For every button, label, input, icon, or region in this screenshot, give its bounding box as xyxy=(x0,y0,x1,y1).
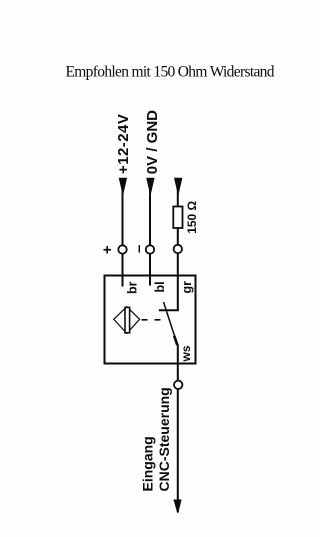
output wire down xyxy=(177,389,179,512)
actuation dashed link xyxy=(142,319,161,321)
sensor plate xyxy=(125,307,130,332)
wire to resistor xyxy=(177,189,179,207)
svg-text:+: + xyxy=(99,245,116,254)
terminal circle 3 xyxy=(174,245,182,253)
svg-text:gr: gr xyxy=(180,281,194,294)
svg-text:bl: bl xyxy=(153,281,167,292)
svg-text:ws: ws xyxy=(179,345,193,362)
blade arrowhead xyxy=(174,336,177,345)
wire terminal3 into box (gr) xyxy=(177,253,179,310)
wire terminal1 to box xyxy=(122,254,124,287)
sensor diamond xyxy=(114,307,140,334)
wire supply 2 xyxy=(149,189,151,245)
terminal circle 2 xyxy=(146,245,154,253)
svg-text:–: – xyxy=(130,245,147,253)
svg-text:br: br xyxy=(125,281,139,294)
svg-text:CNC-Steuerung: CNC-Steuerung xyxy=(156,387,172,491)
output arrowhead xyxy=(173,500,181,514)
contact bar xyxy=(159,309,179,311)
arrow supply 2 xyxy=(146,178,154,194)
output wire to terminal xyxy=(177,345,179,382)
terminal circle 1 xyxy=(118,245,126,253)
svg-text:Empfohlen mit 150 Ohm Widersta: Empfohlen mit 150 Ohm Widerstand xyxy=(66,64,275,81)
wire supply 1 xyxy=(122,189,124,245)
svg-text:+12-24V: +12-24V xyxy=(115,114,132,174)
svg-text:0V / GND: 0V / GND xyxy=(144,110,161,174)
svg-text:150 Ω: 150 Ω xyxy=(185,200,199,233)
arrow supply 1 xyxy=(119,178,127,194)
output terminal circle xyxy=(174,381,182,389)
wire terminal2 to box xyxy=(149,254,151,286)
svg-text:Eingang: Eingang xyxy=(140,436,156,491)
sensor box xyxy=(105,276,196,364)
arrow supply 3 xyxy=(174,178,182,194)
resistor R 150 Ohm xyxy=(173,207,182,229)
switch blade xyxy=(164,302,178,345)
wire resistor to terminal xyxy=(177,228,179,245)
